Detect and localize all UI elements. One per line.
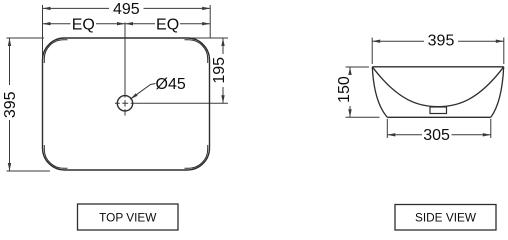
svg-text:195: 195 (211, 57, 228, 84)
svg-text:SIDE VIEW: SIDE VIEW (415, 211, 477, 225)
svg-text:Ø45: Ø45 (156, 76, 186, 93)
svg-text:495: 495 (113, 1, 140, 18)
svg-text:150: 150 (336, 76, 353, 103)
svg-text:EQ: EQ (156, 17, 179, 34)
svg-text:EQ: EQ (72, 17, 95, 34)
svg-text:305: 305 (423, 127, 450, 144)
svg-text:395: 395 (2, 91, 19, 118)
svg-text:395: 395 (428, 33, 455, 50)
svg-text:TOP VIEW: TOP VIEW (99, 211, 157, 225)
